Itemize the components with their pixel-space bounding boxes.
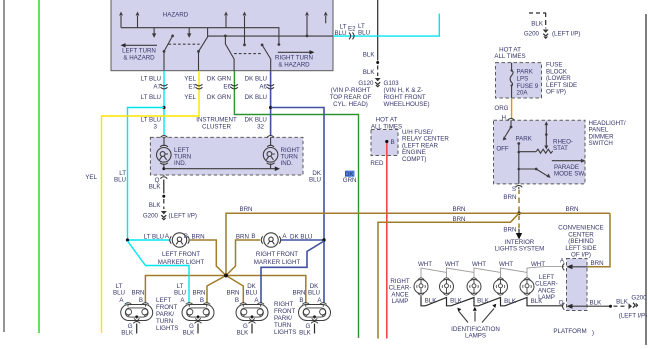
svg-text:SWITCH: SWITCH <box>589 140 613 147</box>
connector row labels (lower) <box>141 94 267 101</box>
wire: black vertical to G120/G103 ground <box>377 0 379 61</box>
label: RIGHT FRONT PARK/TURN LIGHTS <box>274 301 296 336</box>
node: DK BLU junction <box>269 106 272 109</box>
label: LT BLU right of E2 <box>358 23 370 36</box>
svg-text:LEFT TURN: LEFT TURN <box>122 48 156 55</box>
fuse element <box>510 63 513 98</box>
svg-text:FRONT: FRONT <box>274 308 296 315</box>
parade mode switch <box>519 159 586 178</box>
node: contact dot h1 end <box>278 43 281 46</box>
terminal Q and ground G200 under cluster <box>143 175 197 220</box>
wire: feed stub with up arrow (x=226) <box>224 12 228 28</box>
wire: hazard feed stub with up arrow (x=121) <box>119 12 123 28</box>
node: brown X junction <box>224 274 228 278</box>
svg-text:BLU: BLU <box>245 290 257 297</box>
bulb: RIGHT TURN IND <box>263 137 300 168</box>
svg-text:ALL TIMES: ALL TIMES <box>494 53 525 60</box>
wire: dark gray vertical rail (left edge) <box>3 0 5 332</box>
lamp: LEFT FRONT PARK/TURN LIGHTS (outer, lamp 1) <box>113 283 153 337</box>
svg-text:E2: E2 <box>348 26 356 33</box>
wire: BRN main bus <box>226 206 610 276</box>
svg-text:YEL: YEL <box>85 174 97 181</box>
svg-text:A6: A6 <box>259 83 267 90</box>
label: LT BLU on cyan branch <box>114 170 126 184</box>
svg-text:WHT: WHT <box>531 261 545 268</box>
lamp: LEFT FRONT PARK/TURN LIGHTS (inner, lamp 2) <box>174 283 214 337</box>
svg-text:LAMP: LAMP <box>392 298 409 305</box>
switch: OFF lever <box>496 120 512 152</box>
svg-text:IND.: IND. <box>174 160 187 167</box>
wire: LT BLU output to E2 and up <box>333 14 439 36</box>
svg-text:BRN: BRN <box>226 290 239 297</box>
svg-text:BLU: BLU <box>113 290 125 297</box>
svg-text:BRN: BRN <box>591 260 604 267</box>
svg-text:LAMPS: LAMPS <box>465 333 486 340</box>
svg-text:RIGHT FRONT: RIGHT FRONT <box>384 94 426 101</box>
svg-text:& HAZARD: & HAZARD <box>278 62 310 69</box>
svg-text:B: B <box>235 297 239 304</box>
switch lever: (to E6) <box>224 35 234 71</box>
svg-text:G200: G200 <box>631 294 647 301</box>
wire: DK BLU from switch <box>270 71 272 136</box>
wire: internal bus h1 <box>121 28 279 45</box>
svg-text:BLU: BLU <box>308 290 320 297</box>
wire: BLK zigzag chain to convenience center D <box>421 296 563 306</box>
svg-text:BLK: BLK <box>425 298 438 305</box>
svg-text:G200: G200 <box>143 213 159 220</box>
svg-text:BLU: BLU <box>174 290 186 297</box>
svg-text:WHEELHOUSE): WHEELHOUSE) <box>384 101 430 108</box>
svg-text:BRN: BRN <box>452 206 465 213</box>
ground G200 (top right) <box>524 13 581 38</box>
svg-text:LT BLU: LT BLU <box>141 117 161 124</box>
svg-text:WHT: WHT <box>418 261 432 268</box>
convenience center <box>558 225 603 311</box>
svg-text:DK GRN: DK GRN <box>207 76 231 83</box>
hazard / turn signal switch box <box>111 0 333 71</box>
switch lever: (to E7) <box>197 36 208 71</box>
svg-text:B: B <box>139 297 143 304</box>
lamp: identification lamp 1 <box>440 278 454 295</box>
instrument cluster <box>141 117 303 175</box>
connector A6 <box>267 84 274 89</box>
svg-text:DK BLU: DK BLU <box>245 94 267 101</box>
svg-text:PARK: PARK <box>516 135 533 142</box>
label: LEFT TURN & HAZARD with left arrow <box>121 43 158 61</box>
label: RIGHT CLEARANCE LAMP <box>389 278 412 305</box>
svg-text:RED: RED <box>370 160 384 167</box>
svg-text:BLK: BLK <box>299 330 312 337</box>
wire: LT BLU branch to lamp2 A <box>128 241 190 304</box>
connector E2 <box>349 33 354 40</box>
svg-text:BLK: BLK <box>363 69 376 76</box>
svg-text:BRN: BRN <box>452 216 465 223</box>
wire: YEL from switch down the left side <box>102 71 200 333</box>
lamp: RIGHT FRONT MARKER LIGHT <box>236 233 326 266</box>
svg-text:): ) <box>592 330 594 337</box>
svg-text:BLK: BLK <box>616 298 629 305</box>
lamp: right clearance lamp <box>414 278 428 295</box>
svg-text:BLK: BLK <box>183 330 196 337</box>
svg-text:G120: G120 <box>358 80 374 87</box>
wire: cluster internal ground line with arrow <box>162 166 280 171</box>
wire: DK BLU stepped branch to lamp3 A <box>261 241 324 304</box>
svg-text:BLK: BLK <box>237 330 250 337</box>
wire: RED from U/H fuse center down <box>386 143 388 339</box>
svg-text:BLK: BLK <box>149 202 162 209</box>
svg-text:PLATFORM: PLATFORM <box>553 328 586 335</box>
svg-text:A7: A7 <box>153 83 161 90</box>
wire: feed stub with up arrow (x=137.5) <box>136 12 140 28</box>
svg-text:WHT: WHT <box>445 261 459 268</box>
svg-text:LT BLU: LT BLU <box>141 76 161 83</box>
svg-text:BLK: BLK <box>504 298 517 305</box>
U/H fuse relay center <box>370 117 449 167</box>
svg-text:BLK: BLK <box>149 184 162 191</box>
label: IDENTIFICATION LAMPS with pointer arrows <box>451 304 500 340</box>
wire: LT BLU branch to left front lights <box>128 108 165 241</box>
lamp: left clearance lamp <box>520 278 534 295</box>
node: X junction dot (drawn on top) <box>224 274 228 278</box>
connector E7 <box>196 84 203 89</box>
wire: BRN to convenience center A <box>588 213 610 267</box>
svg-text:CYL. HEAD): CYL. HEAD) <box>333 101 368 108</box>
terminal H arc <box>508 118 515 120</box>
svg-text:TURN: TURN <box>156 318 173 325</box>
connector row labels (upper) <box>141 76 267 83</box>
svg-text:32: 32 <box>257 124 264 131</box>
svg-text:G200: G200 <box>524 31 540 38</box>
svg-text:BLK: BLK <box>531 21 544 28</box>
lamp: LEFT FRONT MARKER LIGHT <box>126 233 205 266</box>
wire: drop with down arrow (x=189.2) <box>187 28 191 38</box>
lamp: identification lamp 2 <box>467 278 481 295</box>
svg-text:BLK: BLK <box>477 298 490 305</box>
switch: PARK contact and main pole <box>516 135 533 184</box>
svg-text:YEL: YEL <box>184 76 196 83</box>
wire: BRN branch to lamp2 B <box>207 276 226 304</box>
label: PLATFORM <box>553 328 594 337</box>
rheostat <box>519 121 573 153</box>
ground G120/G103 <box>330 52 430 108</box>
svg-text:BLK: BLK <box>590 300 603 307</box>
wire: feed stub with up arrow (x=244.5) <box>243 12 247 47</box>
svg-text:BLK: BLK <box>121 330 134 337</box>
label: DK GRN (DK highlighted) <box>343 171 357 185</box>
wire: WHT zigzag chain <box>418 261 564 278</box>
wire: BRN lower feeder to platform <box>378 214 519 339</box>
svg-text:OF I/P): OF I/P) <box>546 89 566 96</box>
wire: ORG fuse to headlight switch <box>494 98 511 122</box>
wire: DK BLU branch to markers/lamps <box>271 108 324 304</box>
connector pin labels <box>153 83 267 90</box>
lamp: RIGHT FRONT PARK/TURN LIGHTS (outer, lamp 4) <box>292 283 330 337</box>
svg-text:OFF: OFF <box>496 145 509 152</box>
svg-text:LEFT: LEFT <box>156 297 171 304</box>
wire: black vertical at right edge <box>645 14 647 345</box>
svg-text:BRN: BRN <box>292 290 305 297</box>
svg-text:(LEFT I/P): (LEFT I/P) <box>169 213 197 220</box>
lamp: RIGHT FRONT PARK/TURN LIGHTS (inner, lamp 3) <box>226 283 268 337</box>
svg-text:(LEFT I/P): (LEFT I/P) <box>552 31 580 38</box>
svg-text:CLUSTER: CLUSTER <box>202 123 231 130</box>
wire: DK GRN from switch across to right side <box>234 71 358 338</box>
terminal S arc <box>512 185 522 193</box>
wire: LT BLU from switch to cluster pin 3 <box>163 71 165 135</box>
svg-text:YEL: YEL <box>184 94 196 101</box>
svg-text:COMPT): COMPT) <box>402 156 426 163</box>
wire: BRN branch to right marker B <box>226 240 260 276</box>
svg-text:TURN: TURN <box>274 322 291 329</box>
svg-text:S: S <box>512 186 516 193</box>
wire: bright green vertical rail <box>38 0 40 333</box>
svg-text:LIGHTS: LIGHTS <box>274 329 296 336</box>
svg-text:BRN: BRN <box>503 227 516 234</box>
svg-text:LIGHTS: LIGHTS <box>156 325 178 332</box>
svg-text:RIGHT: RIGHT <box>274 301 293 308</box>
label: RIGHT TURN & HAZARD with right arrow <box>275 50 314 68</box>
svg-text:G103: G103 <box>384 80 400 87</box>
switch lever: (to A6) <box>261 44 271 71</box>
switch linkage dashed 2 <box>234 53 262 55</box>
svg-text:WHT: WHT <box>472 261 486 268</box>
svg-text:B: B <box>299 297 303 304</box>
svg-text:STAT: STAT <box>553 145 568 152</box>
label: LEFT FRONT PARK/TURN LIGHTS <box>156 297 178 332</box>
svg-text:BLK: BLK <box>450 298 463 305</box>
svg-text:BRN: BRN <box>192 234 205 241</box>
svg-text:BRN: BRN <box>565 206 578 213</box>
svg-text:BRN: BRN <box>131 290 144 297</box>
svg-text:RIGHT TURN: RIGHT TURN <box>275 55 313 62</box>
svg-text:E6: E6 <box>223 83 231 90</box>
svg-text:PARK/: PARK/ <box>274 315 292 322</box>
svg-text:BLK: BLK <box>363 52 376 59</box>
svg-text:& HAZARD: & HAZARD <box>123 55 155 62</box>
wire: arrow into A terminal <box>567 264 589 269</box>
wire: drop with down arrow (x=154.1) <box>152 28 156 38</box>
svg-text:B: B <box>391 139 395 146</box>
svg-text:DK GRN: DK GRN <box>207 94 231 101</box>
svg-text:WHT: WHT <box>499 261 513 268</box>
svg-text:(VIN P-RIGHT: (VIN P-RIGHT <box>331 87 371 94</box>
svg-text:MODE SW: MODE SW <box>554 171 584 178</box>
wire: feed stub with up arrow (x=325.7) <box>324 12 328 24</box>
fuse block (PARK LPS FUSE 9) <box>494 46 577 98</box>
svg-text:B: B <box>251 233 255 240</box>
svg-text:E7: E7 <box>188 83 196 90</box>
connector A7 <box>161 84 168 89</box>
wire: internal bus h2 to LT BLU output <box>208 28 333 36</box>
svg-text:BRN: BRN <box>192 290 205 297</box>
label: LEFT CLEARANCE LAMP <box>535 274 558 301</box>
svg-text:BRN: BRN <box>236 234 249 241</box>
svg-text:IND.: IND. <box>281 160 294 167</box>
label: LT BLU left of E2 <box>334 24 346 37</box>
wire: BRN branch to lamp3 B <box>226 276 243 304</box>
svg-text:GRN: GRN <box>343 177 357 184</box>
switch linkage dashed <box>169 43 200 45</box>
svg-text:PARK/: PARK/ <box>156 311 174 318</box>
bulb: LEFT TURN IND <box>157 137 192 168</box>
svg-text:TOP REAR OF: TOP REAR OF <box>330 94 372 101</box>
svg-text:BLK: BLK <box>531 298 544 305</box>
svg-text:(LEFT I/P): (LEFT I/P) <box>619 312 647 319</box>
svg-text:HAZARD: HAZARD <box>163 12 189 19</box>
svg-text:20A: 20A <box>517 90 529 97</box>
svg-text:LEFT FRONT: LEFT FRONT <box>162 251 200 258</box>
svg-text:BLU: BLU <box>334 30 346 37</box>
svg-text:MARKER LIGHT: MARKER LIGHT <box>254 259 301 266</box>
svg-text:RIGHT FRONT: RIGHT FRONT <box>256 251 298 258</box>
wire: feed stub with up arrow (x=307) <box>305 12 309 38</box>
svg-text:(VIN H, K & Z-: (VIN H, K & Z- <box>384 87 424 94</box>
svg-text:B: B <box>200 297 204 304</box>
svg-text:BRN: BRN <box>239 206 252 213</box>
svg-text:LT BLU: LT BLU <box>141 94 161 101</box>
wire: BLK through D to G200 <box>567 294 648 319</box>
svg-text:ORG: ORG <box>494 105 508 112</box>
wire: BRN branch to left marker B <box>190 240 226 276</box>
switch lever: left turn (to A7) <box>163 35 174 71</box>
wire: BRN branch to left front park lamp B <box>145 276 226 304</box>
wire: BRN branch to right front park lamp B <box>226 276 306 304</box>
svg-text:FRONT: FRONT <box>156 304 178 311</box>
svg-text:3: 3 <box>154 124 158 131</box>
headlight / panel dimmer switch <box>494 120 626 184</box>
connector E6 <box>231 84 238 89</box>
wire: BRN dashed from S to interior lights system <box>495 190 545 253</box>
svg-text:BLU: BLU <box>114 177 126 184</box>
svg-text:BLU: BLU <box>309 177 321 184</box>
svg-text:LIGHTS SYSTEM: LIGHTS SYSTEM <box>495 246 545 253</box>
lamp: identification lamp 3 <box>494 278 508 295</box>
svg-text:DK BLU: DK BLU <box>245 76 267 83</box>
svg-text:BRN: BRN <box>503 194 516 201</box>
svg-text:LPS: LPS <box>517 75 529 82</box>
svg-text:OF I/P): OF I/P) <box>571 252 591 259</box>
label: DK BLU on navy vertical <box>309 170 322 184</box>
svg-text:BLU: BLU <box>358 29 370 36</box>
node: LT BLU junction <box>162 106 165 109</box>
